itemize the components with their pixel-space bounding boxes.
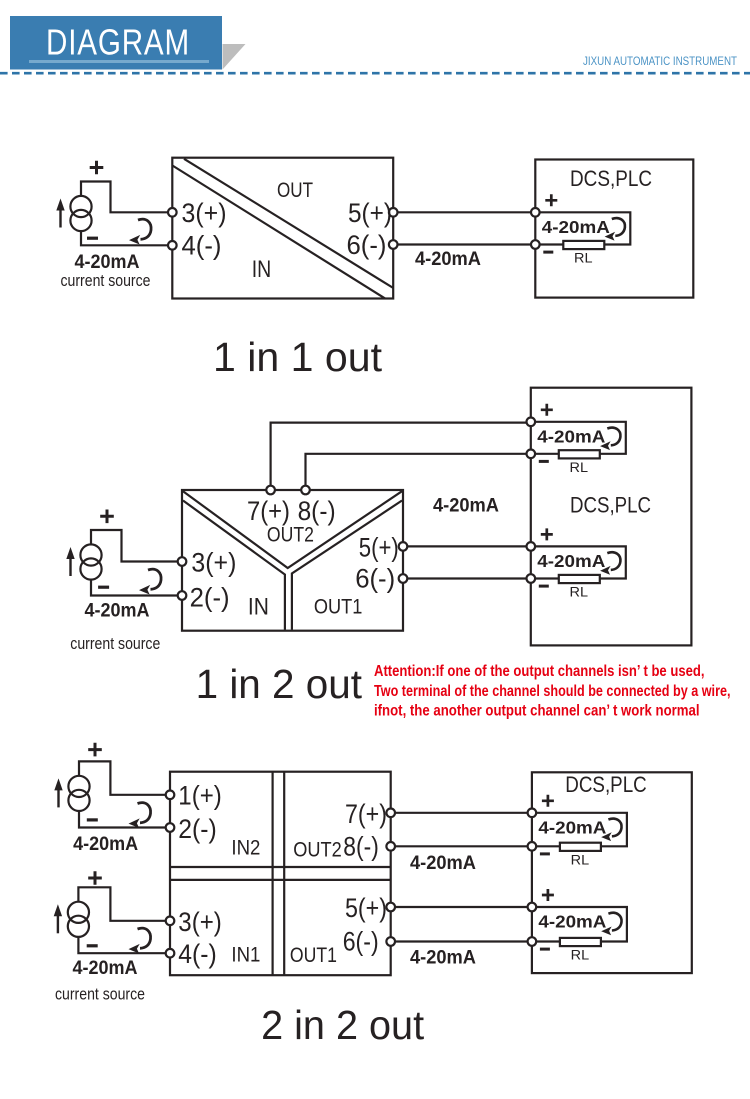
minus mark CS1	[87, 237, 98, 240]
svg-text:current source: current source	[61, 272, 151, 290]
svg-text:5(+): 5(+)	[359, 532, 399, 562]
svg-text:8(-): 8(-)	[298, 496, 336, 526]
up arrow CS1	[59, 209, 61, 228]
wire CS1 - lead	[81, 231, 168, 245]
svg-text:4-20mA: 4-20mA	[415, 249, 481, 270]
svg-text:ifnot, the another output cha: ifnot, the another output channel can’ t…	[374, 703, 700, 720]
DCS box d1	[535, 160, 693, 298]
svg-text:IN: IN	[252, 256, 272, 283]
svg-text:7(+): 7(+)	[247, 496, 290, 526]
svg-text:5(+): 5(+)	[345, 893, 387, 923]
wire 5(+) to DCS	[398, 211, 532, 213]
resistor RL (d2a)	[559, 450, 600, 458]
isolator U2 body	[182, 490, 403, 631]
wire 7(+) up to DCS d2	[271, 423, 527, 486]
svg-text:4-20mA: 4-20mA	[410, 948, 476, 969]
svg-text:1(+): 1(+)	[178, 781, 222, 811]
wire 6(-) to DCS d3	[395, 940, 528, 942]
svg-text:RL: RL	[574, 251, 593, 266]
terminal 7(+) U3	[386, 809, 395, 818]
terminal - (d3b)	[528, 937, 537, 946]
terminal + (d1)	[531, 208, 540, 217]
wire loop d1 bottom-left segment	[540, 243, 564, 245]
wire 6(-) to DCS d2	[407, 577, 526, 579]
plus mark CS4	[88, 871, 102, 885]
current source CS1 circles	[70, 196, 91, 217]
terminal + (d2a)	[527, 418, 536, 427]
wire CS4 - lead	[78, 937, 165, 954]
resistor RL (d2b)	[559, 575, 600, 583]
svg-text:3(+): 3(+)	[182, 198, 227, 228]
current source CS2 circles	[80, 544, 101, 565]
plus mark (d2a)	[541, 404, 553, 416]
svg-text:RL: RL	[570, 460, 589, 475]
terminal 8(-) U3	[386, 842, 395, 851]
terminal 7(+) U2	[266, 486, 275, 495]
svg-text:4-20mA: 4-20mA	[542, 217, 610, 237]
svg-text:current source: current source	[55, 986, 145, 1004]
svg-text:Two terminal of the channel sh: Two terminal of the channel should be co…	[374, 683, 731, 700]
plus mark CS1	[90, 161, 104, 175]
minus mark (d3b)	[540, 948, 550, 951]
svg-text:1 in 1 out: 1 in 1 out	[213, 334, 383, 380]
terminal 4(-) U1	[168, 241, 177, 250]
loop arrow CS3	[138, 803, 151, 823]
svg-text:5(+): 5(+)	[348, 198, 392, 228]
wire 5(+) to DCS d2	[407, 545, 526, 547]
terminal 5(+) U1	[389, 208, 398, 217]
plus mark (d2b)	[541, 528, 553, 540]
banner fold triangle	[223, 44, 246, 70]
current direction arrow (d3b)	[608, 913, 621, 931]
isolator U1 body	[172, 158, 393, 299]
minus mark CS3	[87, 818, 98, 821]
minus mark (d1)	[543, 251, 553, 254]
svg-text:RL: RL	[571, 853, 590, 868]
resistor RL (d3a)	[560, 843, 601, 851]
svg-text:4-20mA: 4-20mA	[73, 834, 138, 855]
terminal 3(+) U2	[178, 557, 187, 566]
resistor RL (d3b)	[560, 938, 601, 946]
isolator U3 body	[170, 772, 391, 976]
up arrow CS2	[69, 557, 71, 576]
terminal 6(-) U3	[386, 937, 395, 946]
svg-text:4-20mA: 4-20mA	[433, 496, 499, 517]
wire CS3 + lead	[79, 761, 166, 794]
svg-text:3(+): 3(+)	[191, 547, 236, 577]
wire 8(-) to DCS d3	[395, 845, 528, 847]
up arrow CS3	[57, 788, 59, 807]
terminal 4(-) U3	[166, 949, 175, 958]
svg-text:OUT: OUT	[277, 178, 313, 202]
terminal + (d2b)	[527, 542, 536, 551]
svg-text:RL: RL	[570, 585, 589, 600]
wire loop d3a top/right	[536, 813, 627, 847]
wire CS2 - lead	[91, 579, 178, 595]
terminal 2(-) U3	[166, 823, 175, 832]
minus mark CS4	[87, 944, 98, 947]
terminal - (d3a)	[528, 842, 537, 851]
svg-text:4-20mA: 4-20mA	[537, 551, 605, 571]
terminal - (d2a)	[527, 450, 536, 459]
isolator U2 divider Y outer	[183, 491, 402, 568]
svg-text:DCS,PLC: DCS,PLC	[570, 166, 652, 191]
isolator U2 divider left inner	[183, 501, 285, 630]
wire 7(+) to DCS d3	[395, 812, 528, 814]
loop arrow CS2	[148, 569, 161, 589]
svg-text:DCS,PLC: DCS,PLC	[565, 772, 647, 797]
wire loop d1 top/right	[540, 212, 631, 244]
minus mark (d3a)	[540, 852, 550, 855]
terminal 3(+) U3	[166, 917, 175, 926]
svg-text:4(-): 4(-)	[178, 939, 217, 969]
svg-text:IN: IN	[248, 594, 269, 621]
isolator U2 divider right inner	[292, 501, 402, 630]
svg-text:Attention:If one of the output: Attention:If one of the output channels …	[374, 663, 705, 680]
wire loop d2a bottom-left segment	[535, 453, 559, 455]
isolator U3 divider horizontal lower	[170, 879, 391, 881]
wire loop d3b bottom-left segment	[536, 940, 560, 942]
svg-text:4-20mA: 4-20mA	[73, 958, 138, 979]
terminal 5(+) U2	[399, 542, 408, 551]
wire CS4 + lead	[78, 887, 165, 921]
svg-text:DCS,PLC: DCS,PLC	[570, 493, 651, 518]
terminal + (d3a)	[528, 809, 537, 818]
terminal - (d1)	[531, 240, 540, 249]
isolator U1 diagonal upper	[184, 159, 393, 288]
svg-text:2(-): 2(-)	[178, 814, 217, 844]
svg-text:OUT2: OUT2	[267, 523, 314, 547]
terminal 2(-) U2	[178, 591, 187, 600]
svg-text:4-20mA: 4-20mA	[538, 912, 606, 932]
minus mark CS2	[98, 586, 109, 589]
terminal 8(-) U2	[301, 486, 310, 495]
svg-text:IN1: IN1	[231, 942, 260, 966]
svg-text:OUT1: OUT1	[314, 595, 363, 619]
isolator U3 divider horizontal upper	[170, 866, 391, 868]
svg-text:JIXUN AUTOMATIC INSTRUMENT: JIXUN AUTOMATIC INSTRUMENT	[583, 56, 737, 68]
svg-text:3(+): 3(+)	[178, 907, 222, 937]
wire loop d2a top/right	[535, 422, 626, 454]
svg-text:8(-): 8(-)	[343, 831, 379, 861]
up arrow CS4	[57, 914, 59, 933]
terminal 6(-) U1	[389, 240, 398, 249]
current direction arrow (d2a)	[607, 428, 620, 446]
banner box	[10, 16, 222, 70]
plus mark CS3	[88, 743, 102, 757]
svg-text:current source: current source	[70, 635, 160, 653]
current source CS3 circles	[68, 776, 89, 797]
svg-text:DIAGRAM: DIAGRAM	[46, 22, 190, 63]
wire CS2 + lead	[91, 530, 178, 562]
DCS box d2	[531, 388, 692, 646]
loop arrow CS4	[138, 928, 151, 948]
minus mark (d2b)	[539, 585, 549, 588]
resistor RL (d1)	[563, 241, 604, 249]
wire 5(+) to DCS d3	[395, 906, 528, 908]
svg-text:IN2: IN2	[231, 836, 260, 860]
wire loop d2b bottom-left segment	[535, 577, 559, 579]
wire CS1 + lead	[81, 182, 168, 213]
svg-text:4(-): 4(-)	[182, 231, 222, 261]
svg-text:RL: RL	[571, 948, 590, 963]
terminal - (d2b)	[527, 574, 536, 583]
isolator U3 divider vertical right	[283, 772, 285, 976]
svg-text:4-20mA: 4-20mA	[538, 817, 606, 837]
current source CS4 circles	[68, 902, 89, 923]
header dashed rule	[0, 72, 750, 75]
plus mark (d3a)	[542, 795, 554, 807]
plus mark (d3b)	[542, 889, 554, 901]
wire loop d2b top/right	[535, 546, 626, 578]
plus mark (d1)	[545, 194, 557, 206]
wire loop d3a bottom-left segment	[536, 845, 560, 847]
wire 8(-) up to DCS d2	[306, 454, 527, 486]
minus mark (d2a)	[539, 460, 549, 463]
isolator U3 divider vertical left	[272, 772, 274, 976]
wire loop d3b top/right	[536, 907, 627, 942]
svg-text:4-20mA: 4-20mA	[85, 601, 150, 622]
wire 6(-) to DCS	[398, 243, 532, 245]
current direction arrow (d1)	[612, 218, 625, 236]
terminal 3(+) U1	[168, 208, 177, 217]
svg-text:4-20mA: 4-20mA	[410, 853, 476, 874]
svg-text:6(-): 6(-)	[355, 564, 395, 594]
banner underline	[29, 60, 209, 63]
svg-text:OUT1: OUT1	[290, 943, 337, 967]
svg-text:6(-): 6(-)	[343, 926, 379, 956]
svg-text:7(+): 7(+)	[345, 799, 387, 829]
svg-text:OUT2: OUT2	[293, 837, 342, 861]
terminal 6(-) U2	[399, 574, 408, 583]
svg-text:4-20mA: 4-20mA	[75, 252, 140, 273]
svg-text:2(-): 2(-)	[190, 583, 230, 613]
svg-text:6(-): 6(-)	[347, 230, 387, 260]
current direction arrow (d2b)	[607, 552, 620, 570]
DCS box d3	[532, 772, 692, 973]
terminal 1(+) U3	[166, 791, 175, 800]
wire CS3 - lead	[79, 811, 166, 828]
isolator U1 diagonal lower	[172, 166, 385, 299]
svg-text:1 in 2 out: 1 in 2 out	[196, 661, 363, 707]
svg-text:2 in 2 out: 2 in 2 out	[261, 1002, 425, 1048]
current direction arrow (d3a)	[608, 819, 621, 837]
svg-text:4-20mA: 4-20mA	[537, 426, 605, 446]
loop arrow CS1	[138, 219, 151, 239]
plus mark CS2	[100, 510, 114, 524]
terminal 5(+) U3	[386, 903, 395, 912]
terminal + (d3b)	[528, 903, 537, 912]
